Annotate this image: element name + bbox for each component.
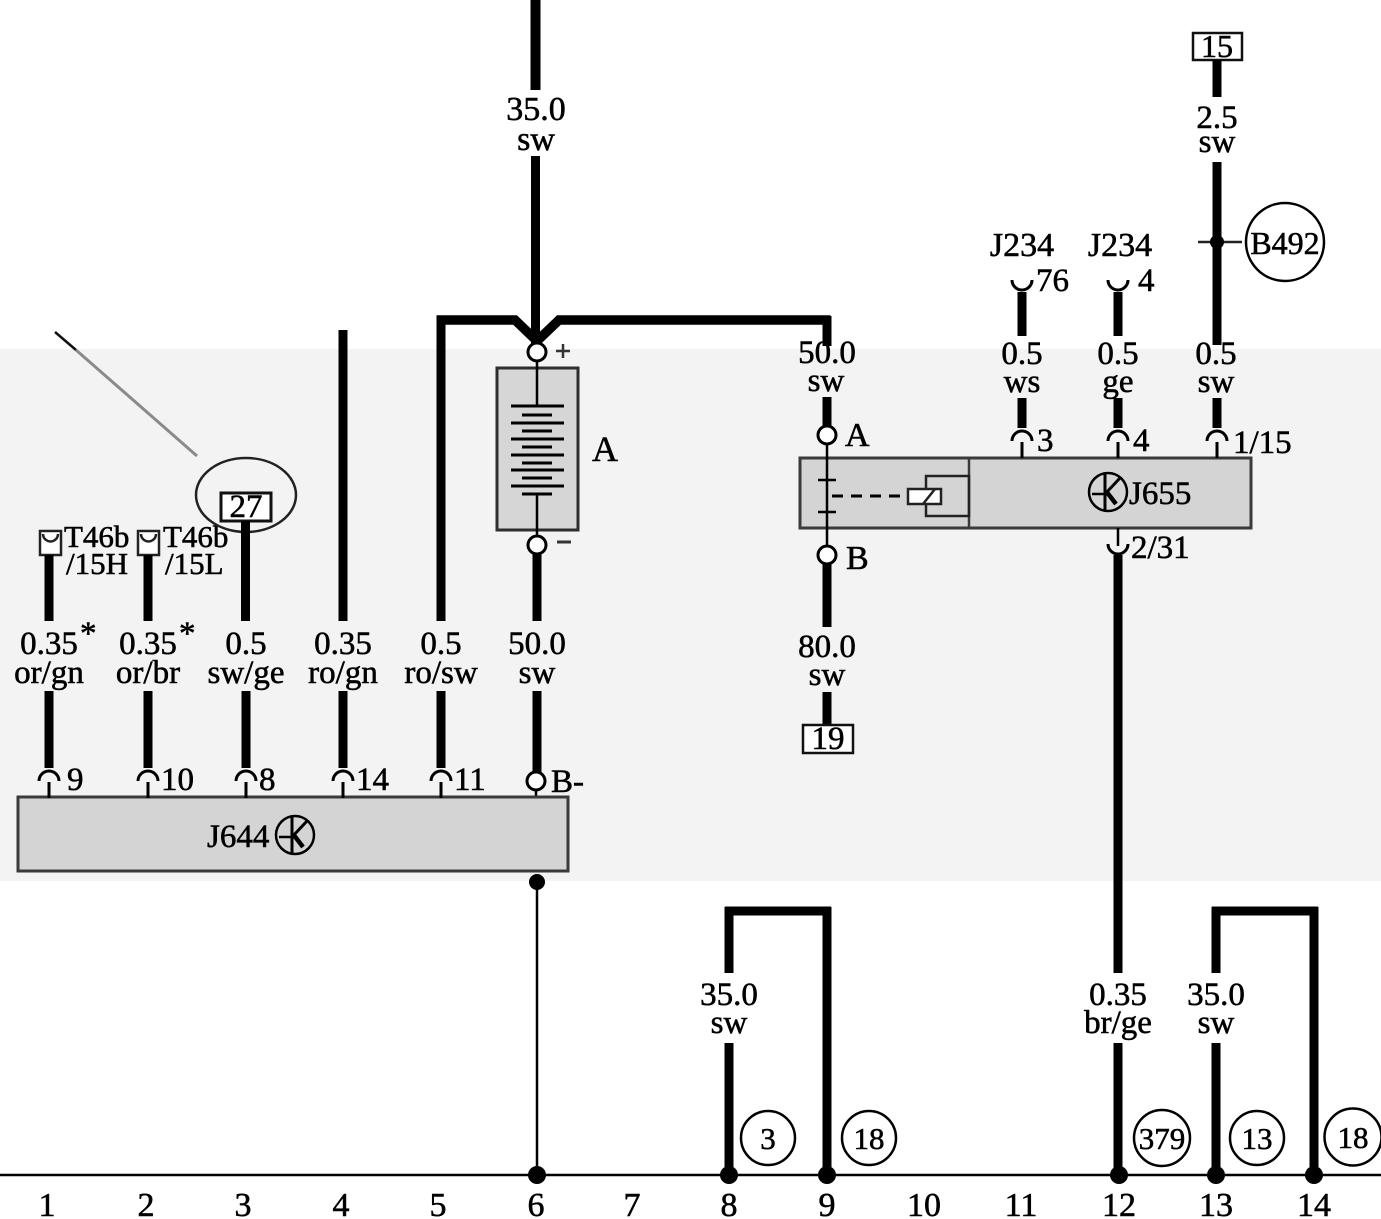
terminal box 27 xyxy=(221,493,271,521)
rail junction 12 xyxy=(1110,1166,1128,1184)
sensor circle B492 xyxy=(1246,203,1324,281)
wire stub pin4 upper xyxy=(1114,292,1123,336)
battery internal bottom lead xyxy=(536,494,539,536)
pin 1/15 xyxy=(1207,431,1227,441)
connector arc 76 xyxy=(1012,280,1032,290)
wire stub pin4 lower xyxy=(1114,398,1123,428)
callout leader line upper xyxy=(55,332,76,350)
K symbol J655 xyxy=(1089,473,1127,511)
svg-text:3: 3 xyxy=(1037,423,1054,459)
wire 10 lower xyxy=(144,691,153,768)
svg-text:sw: sw xyxy=(517,121,555,158)
svg-text:6: 6 xyxy=(528,1187,545,1219)
B492 junction dot xyxy=(1210,235,1224,249)
relay box J655 xyxy=(800,458,1251,528)
pin 4 xyxy=(1108,431,1128,441)
svg-text:13: 13 xyxy=(1199,1187,1233,1219)
wire 14 upper xyxy=(339,330,348,621)
svg-text:18: 18 xyxy=(1338,1120,1369,1155)
svg-text:76: 76 xyxy=(1036,263,1069,299)
contact tick lower xyxy=(818,511,836,514)
svg-text:ge: ge xyxy=(1102,364,1133,400)
wire 80.0 lower xyxy=(823,692,832,726)
plus sign xyxy=(556,350,570,353)
svg-text:B-: B- xyxy=(551,764,584,800)
svg-text:18: 18 xyxy=(854,1121,885,1156)
K symbol J644 xyxy=(276,816,314,854)
wire pin A stub xyxy=(823,397,832,426)
svg-text:12: 12 xyxy=(1102,1187,1136,1219)
svg-text:J655: J655 xyxy=(1129,476,1191,512)
svg-text:*: * xyxy=(179,616,196,652)
wire 80.0 upper xyxy=(823,564,832,627)
relay contact line A-B xyxy=(826,444,829,546)
ground rail xyxy=(0,1174,1381,1177)
relay armature box xyxy=(908,489,941,504)
svg-text:J644: J644 xyxy=(207,819,269,855)
wire 50.0 sw upper xyxy=(533,554,542,621)
wire battery feed top segment xyxy=(531,0,541,90)
pin 2/31 xyxy=(1108,544,1128,554)
pin 9 xyxy=(39,771,59,781)
svg-text:ro/sw: ro/sw xyxy=(404,655,478,691)
pin 11 xyxy=(431,771,451,781)
minus sign xyxy=(557,541,571,544)
svg-text:11: 11 xyxy=(454,762,486,798)
node battery + terminal xyxy=(528,343,546,361)
svg-text:ro/gn: ro/gn xyxy=(308,655,378,691)
svg-text:sw: sw xyxy=(711,1005,748,1041)
wire B492 main xyxy=(1213,162,1222,345)
svg-text:11: 11 xyxy=(1005,1187,1038,1219)
node B- terminal xyxy=(527,772,545,790)
wire 12 upper xyxy=(1114,555,1123,973)
rail junction 9 xyxy=(818,1166,836,1184)
connector T46b/15L symbol xyxy=(138,531,159,555)
svg-text:5: 5 xyxy=(430,1187,447,1219)
contact tick upper xyxy=(818,479,836,482)
wire 12 lower xyxy=(1114,1043,1123,1175)
wire stub pin3 lower xyxy=(1018,398,1027,428)
svg-text:8: 8 xyxy=(259,762,276,798)
wire bridge 13-14 top xyxy=(1212,907,1318,916)
pin 8 xyxy=(236,771,256,781)
svg-text:or/gn: or/gn xyxy=(14,655,84,691)
junction below J644 xyxy=(529,874,545,890)
svg-text:sw: sw xyxy=(808,363,845,399)
svg-text:sw: sw xyxy=(519,655,556,691)
svg-text:4: 4 xyxy=(1133,423,1150,459)
svg-text:15: 15 xyxy=(1201,28,1233,64)
svg-text:13: 13 xyxy=(1242,1121,1273,1156)
battery plates xyxy=(511,406,564,494)
ground ref circle 379 xyxy=(1134,1110,1190,1166)
svg-text:sw: sw xyxy=(1198,1005,1235,1041)
svg-text:sw/ge: sw/ge xyxy=(208,655,285,691)
svg-text:8: 8 xyxy=(721,1187,738,1219)
svg-text:B492: B492 xyxy=(1250,225,1319,261)
track numbers xyxy=(39,1187,1332,1219)
svg-text:7: 7 xyxy=(624,1187,641,1219)
wire bus with V junction xyxy=(437,320,831,341)
svg-text:9: 9 xyxy=(819,1187,836,1219)
wire stub pin 1/15 xyxy=(1213,398,1222,428)
wire 15 stub xyxy=(1213,60,1222,97)
svg-text:2/31: 2/31 xyxy=(1131,530,1190,566)
wire bridge 8-9 right xyxy=(823,907,832,1175)
svg-text:10: 10 xyxy=(161,762,194,798)
svg-text:J234: J234 xyxy=(990,227,1054,264)
wire bridge 13-14 left lower xyxy=(1212,1043,1221,1175)
svg-text:4: 4 xyxy=(333,1187,350,1219)
svg-text:379: 379 xyxy=(1139,1121,1186,1156)
svg-text:27: 27 xyxy=(230,489,263,525)
svg-text:A: A xyxy=(845,417,870,454)
control unit J644 box xyxy=(18,797,568,871)
ground ref circle 18b xyxy=(1325,1109,1381,1166)
callout leader line lower xyxy=(76,350,197,456)
relay divider xyxy=(968,458,971,528)
svg-text:sw: sw xyxy=(1199,124,1236,160)
wire stub pin3 upper xyxy=(1018,292,1027,336)
svg-text:J234: J234 xyxy=(1088,227,1152,264)
rail junction 13 xyxy=(1207,1166,1225,1184)
svg-text:14: 14 xyxy=(356,762,389,798)
svg-text:A: A xyxy=(592,429,618,469)
ground ref circle 13 xyxy=(1230,1111,1284,1165)
wire 8 lower xyxy=(242,691,251,768)
battery A box xyxy=(497,368,578,530)
svg-text:3: 3 xyxy=(235,1187,252,1219)
wire 9 lower xyxy=(45,691,54,768)
wire bridge 8-9 left upper xyxy=(725,907,734,973)
pin 10 xyxy=(138,771,158,781)
wire 50.0 sw lower xyxy=(533,691,542,772)
wire 11 upper xyxy=(437,324,446,621)
svg-text:sw: sw xyxy=(809,657,846,693)
svg-text:1: 1 xyxy=(39,1187,56,1219)
rail junction 14 xyxy=(1305,1166,1323,1184)
svg-text:ws: ws xyxy=(1004,364,1041,400)
svg-text:9: 9 xyxy=(67,762,84,798)
svg-text:br/ge: br/ge xyxy=(1084,1005,1152,1041)
wire 9 upper xyxy=(45,555,54,621)
svg-text:or/br: or/br xyxy=(116,655,180,691)
ground ref circle 18 xyxy=(842,1111,896,1165)
svg-text:*: * xyxy=(80,616,97,652)
svg-text:3: 3 xyxy=(760,1121,776,1156)
pin 3 xyxy=(1012,431,1032,441)
wire bridge 13-14 right xyxy=(1310,907,1319,1175)
wire 14 lower xyxy=(339,691,348,768)
svg-text:B: B xyxy=(846,540,869,577)
node A terminal xyxy=(818,426,836,444)
armature diagonal xyxy=(923,489,935,504)
wire 8 upper xyxy=(241,521,250,621)
rail junction 6 xyxy=(528,1166,546,1184)
actuation dashed line xyxy=(832,495,908,498)
rail junction 8 xyxy=(720,1166,738,1184)
node battery - terminal xyxy=(528,536,546,554)
ellipse around terminal 27 xyxy=(196,458,296,532)
wire to ground rail xyxy=(536,882,539,1175)
connector arc 4 xyxy=(1108,280,1128,290)
svg-text:/15H: /15H xyxy=(66,546,128,581)
svg-text:14: 14 xyxy=(1297,1187,1331,1219)
svg-text:1/15: 1/15 xyxy=(1233,425,1292,461)
pin 14 xyxy=(333,771,353,781)
svg-text:2: 2 xyxy=(138,1187,155,1219)
ground ref circle 3 xyxy=(741,1111,795,1165)
wire bridge 13-14 left upper xyxy=(1212,907,1221,973)
wire bus right corner drop xyxy=(823,316,832,346)
terminal box 15 xyxy=(1193,33,1242,60)
svg-text:4: 4 xyxy=(1138,263,1155,299)
battery internal top lead xyxy=(536,361,539,406)
svg-text:10: 10 xyxy=(907,1187,941,1219)
relay coil outline xyxy=(926,476,969,516)
wire bridge 8-9 left lower xyxy=(725,1043,734,1175)
node B terminal xyxy=(818,546,836,564)
svg-text:/15L: /15L xyxy=(165,546,224,581)
terminal box 19 xyxy=(803,725,853,753)
svg-text:sw: sw xyxy=(1198,364,1235,400)
connector T46b/15H symbol xyxy=(40,531,61,555)
wire bridge 8-9 top xyxy=(725,907,831,916)
svg-text:19: 19 xyxy=(812,721,845,757)
wire 10 upper xyxy=(144,555,153,621)
wire battery feed lower segment xyxy=(531,156,540,345)
B492 tap line xyxy=(1198,241,1242,244)
wire 11 lower xyxy=(437,691,446,768)
gray band xyxy=(0,349,1381,881)
